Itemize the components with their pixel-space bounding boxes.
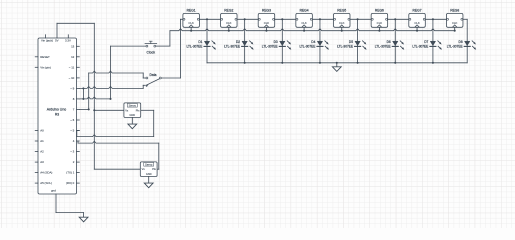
svg-text:gnd: gnd: [51, 188, 56, 192]
svg-text:CLK: CLK: [301, 21, 307, 25]
svg-text:LTL-307EE: LTL-307EE: [375, 45, 391, 49]
svg-text:GND: GND: [146, 172, 152, 176]
svg-text:D6: D6: [387, 40, 391, 44]
svg-text:CLK: CLK: [377, 21, 383, 25]
svg-text:REG3: REG3: [262, 9, 271, 13]
svg-text:D3: D3: [274, 40, 278, 44]
svg-text:REG8: REG8: [450, 9, 459, 13]
svg-text:CLK: CLK: [264, 21, 270, 25]
svg-text:LTL-307EE: LTL-307EE: [187, 45, 203, 49]
svg-text:13: 13: [71, 44, 75, 48]
svg-text:REG6: REG6: [375, 9, 384, 13]
svg-text:D7: D7: [424, 40, 428, 44]
svg-text:5V: 5V: [55, 39, 59, 43]
svg-text:D4: D4: [311, 40, 315, 44]
svg-text:CLK: CLK: [188, 21, 194, 25]
svg-text:Servo: Servo: [129, 104, 137, 108]
svg-text:3.3V: 3.3V: [65, 39, 71, 43]
svg-text:A5 (SCL): A5 (SCL): [40, 181, 52, 185]
svg-text:Vin (pin): Vin (pin): [40, 65, 51, 69]
svg-text:Data: Data: [150, 73, 157, 77]
svg-text:A4 (SDA): A4 (SDA): [40, 171, 52, 175]
svg-text:REG4: REG4: [300, 9, 309, 13]
svg-text:CLK: CLK: [226, 21, 232, 25]
svg-text:REG2: REG2: [224, 9, 233, 13]
svg-text:LTL-307EE: LTL-307EE: [447, 45, 463, 49]
svg-text:Servo: Servo: [145, 163, 153, 167]
svg-text:RESET: RESET: [40, 55, 50, 59]
svg-text:REG1: REG1: [187, 9, 196, 13]
svg-text:CLK: CLK: [339, 21, 345, 25]
svg-text:A3: A3: [40, 160, 44, 164]
svg-text:LTL-307EE: LTL-307EE: [337, 45, 353, 49]
svg-text:(TX) 1: (TX) 1: [66, 171, 74, 175]
svg-text:~ 11: ~ 11: [69, 65, 75, 69]
svg-text:GND: GND: [129, 113, 135, 117]
svg-text:Clock: Clock: [147, 50, 156, 54]
svg-text:A0: A0: [40, 129, 44, 133]
svg-text:CLK: CLK: [414, 21, 420, 25]
svg-text:D1: D1: [198, 40, 202, 44]
svg-text:D5: D5: [349, 40, 353, 44]
svg-text:REG7: REG7: [413, 9, 422, 13]
svg-text:D8: D8: [459, 40, 463, 44]
svg-text:LTL-307EE: LTL-307EE: [412, 45, 428, 49]
svg-text:R3: R3: [55, 113, 59, 117]
svg-text:~ 10: ~ 10: [69, 76, 75, 80]
svg-text:~ 3: ~ 3: [70, 150, 74, 154]
svg-text:CLK: CLK: [452, 21, 458, 25]
svg-text:LTL-307EE: LTL-307EE: [224, 45, 240, 49]
svg-text:D2: D2: [236, 40, 240, 44]
svg-text:A1: A1: [40, 139, 44, 143]
svg-text:~ 6: ~ 6: [70, 118, 74, 122]
svg-text:A2: A2: [40, 150, 44, 154]
svg-text:~ 9: ~ 9: [70, 87, 74, 91]
svg-text:REG5: REG5: [337, 9, 346, 13]
svg-text:(RX) 0: (RX) 0: [66, 181, 75, 185]
svg-text:Vin (jack): Vin (jack): [41, 39, 53, 43]
svg-text:12: 12: [71, 55, 75, 59]
svg-text:LTL-307EE: LTL-307EE: [299, 45, 315, 49]
svg-text:Arduino Uno: Arduino Uno: [47, 108, 67, 112]
svg-text:LTL-307EE: LTL-307EE: [262, 45, 278, 49]
svg-text:~ 5: ~ 5: [70, 129, 74, 133]
